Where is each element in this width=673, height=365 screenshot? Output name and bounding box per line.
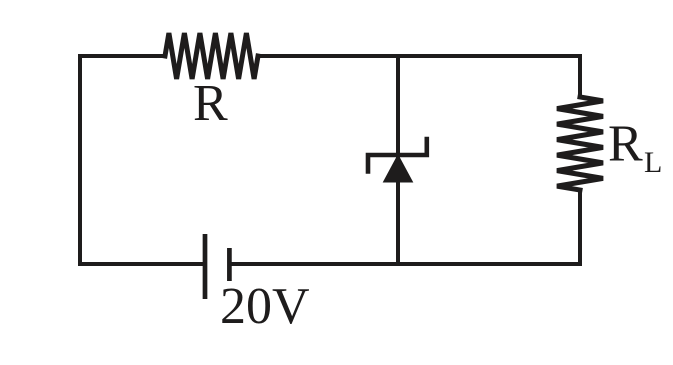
wire: top-left segment from corner to resistor R [80,54,165,58]
resistor R (horizontal zigzag, top branch) [165,33,258,79]
wire: bottom segment from battery to bottom-right corner [231,262,580,266]
battery 20V: long (positive) plate [203,234,208,299]
battery 20V: short (negative) plate [227,248,232,281]
svg-text:R: R [608,116,643,173]
svg-text:R: R [193,75,228,132]
svg-text:L: L [644,146,662,179]
zener diode: cathode bar with bent ends (z-bar) [368,139,427,172]
wire: middle vertical branch (zener branch) [396,56,400,264]
wire: bottom segment from bottom-left corner to battery [80,262,203,266]
wire: right side vertical, resistor RL down to bottom-right corner [578,190,582,264]
svg-text:20V: 20V [220,278,310,335]
wire: top segment from middle node to top-right corner [398,54,580,58]
wire: right side vertical, top-right corner down to resistor RL [578,56,582,97]
zener diode: anode triangle (pointing up) [384,155,413,182]
wire: left side vertical (top-left corner to bottom-left corner) [78,56,82,264]
resistor RL (vertical zigzag, right branch) [557,97,603,190]
wire: top segment from resistor R to middle node [258,54,398,58]
